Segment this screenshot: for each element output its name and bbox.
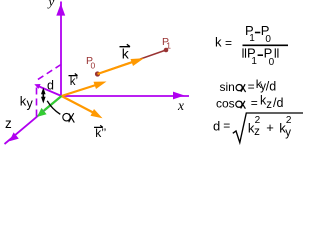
- svg-text:x: x: [177, 98, 184, 113]
- svg-text:0: 0: [265, 34, 271, 45]
- svg-text:2: 2: [286, 115, 292, 126]
- svg-text:1: 1: [251, 56, 257, 67]
- svg-text:1: 1: [249, 33, 255, 44]
- svg-text:/d: /d: [273, 96, 283, 110]
- svg-text:k: k: [215, 35, 222, 50]
- svg-text:z: z: [5, 116, 12, 131]
- svg-text:=: =: [223, 119, 230, 133]
- svg-text:d: d: [47, 79, 54, 93]
- svg-text:0: 0: [91, 61, 96, 71]
- svg-text:y: y: [285, 127, 291, 139]
- svg-text:y: y: [47, 0, 55, 9]
- svg-text:=: =: [251, 96, 258, 110]
- svg-text:y: y: [27, 96, 34, 110]
- svg-text:=: =: [225, 36, 232, 50]
- svg-text:1: 1: [166, 40, 171, 50]
- svg-text:k: k: [122, 46, 130, 62]
- svg-text:z: z: [266, 99, 272, 111]
- svg-text:2: 2: [255, 115, 261, 126]
- svg-text:k’: k’: [70, 76, 78, 88]
- svg-text:=: =: [248, 80, 255, 94]
- svg-text:0: 0: [269, 57, 275, 68]
- svg-text:/d: /d: [266, 80, 276, 94]
- svg-text:z: z: [254, 126, 260, 138]
- svg-text:sin: sin: [220, 80, 235, 94]
- svg-text:k’’: k’’: [95, 126, 106, 140]
- svg-text:d: d: [213, 119, 220, 134]
- svg-text:cos: cos: [216, 97, 235, 111]
- svg-text:+: +: [266, 120, 274, 135]
